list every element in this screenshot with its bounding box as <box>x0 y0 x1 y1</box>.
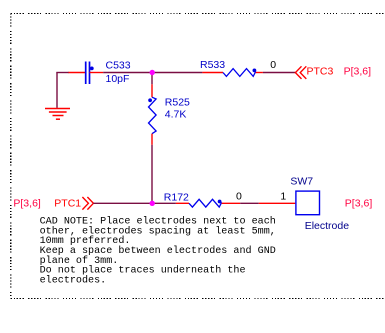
resistor R533 pin 1 <box>202 72 223 74</box>
label 4.7K <box>165 108 187 120</box>
label Electrode <box>305 220 350 232</box>
svg-text:Electrode: Electrode <box>305 220 350 232</box>
label PTC3 <box>307 66 334 78</box>
svg-text:electrodes.: electrodes. <box>40 274 107 286</box>
ground <box>45 109 70 120</box>
svg-text:PTC1: PTC1 <box>54 198 81 210</box>
pin number 1 of SW7 <box>280 191 286 203</box>
pin number 0 of R533 <box>270 59 276 71</box>
wire: C533 to junction <box>103 72 152 74</box>
svg-text:P[3,6]: P[3,6] <box>344 66 372 78</box>
svg-text:SW7: SW7 <box>290 175 313 187</box>
wire: junction down to R525 <box>151 73 153 85</box>
resistor R525 zigzag <box>149 97 157 134</box>
net label P[3,6] bottom left <box>13 198 41 210</box>
wire: gnd corner to C533 pin <box>56 72 69 74</box>
label 10pF <box>106 73 130 85</box>
node junction bottom <box>150 201 155 206</box>
net label P[3,6] top right <box>344 66 372 78</box>
wire: junction to R533 <box>152 72 202 74</box>
wire: R172 to SW7 <box>240 202 259 204</box>
wire: gnd vertical stem <box>56 73 58 108</box>
wire: junction to R172 <box>152 202 176 204</box>
off-page connector PTC3 chevrons <box>295 66 306 79</box>
capacitor C533 pin 1 <box>69 72 86 74</box>
svg-text:0: 0 <box>270 59 276 71</box>
resistor R525 pin-end dot <box>148 98 152 102</box>
resistor R533 pin-end dot <box>253 69 257 73</box>
pin number 0 of R172 <box>236 191 242 203</box>
wire: PTC1 to junction <box>93 202 152 204</box>
capacitor C533 plates <box>86 62 90 85</box>
label C533 <box>106 59 131 71</box>
resistor R172 zigzag <box>189 199 222 207</box>
net label P[3,6] bottom right <box>345 198 373 210</box>
resistor R525 pin 1 <box>151 84 153 97</box>
switch SW7 body <box>296 191 320 215</box>
wire: R525 down to bottom net <box>151 145 153 204</box>
label PTC1 <box>54 198 81 210</box>
resistor R533 pin 2 <box>256 72 263 74</box>
label R525 <box>165 97 190 109</box>
svg-text:4.7K: 4.7K <box>165 108 187 120</box>
label R533 <box>200 59 225 71</box>
resistor R525 pin 2 <box>151 134 153 145</box>
wire: R533 to off-page connector PTC3 <box>263 72 296 74</box>
off-page connector PTC1 chevrons <box>82 197 93 210</box>
label SW7 <box>290 175 313 187</box>
label R172 <box>164 192 189 204</box>
svg-text:R172: R172 <box>164 192 189 204</box>
capacitor C533 pin-end dot <box>90 67 94 71</box>
svg-text:10pF: 10pF <box>106 73 130 85</box>
CAD NOTE text block <box>40 216 276 287</box>
svg-text:P[3,6]: P[3,6] <box>345 198 373 210</box>
capacitor C533 pin 2 <box>90 72 104 74</box>
svg-text:C533: C533 <box>106 59 131 71</box>
svg-text:P[3,6]: P[3,6] <box>13 198 41 210</box>
node junction top <box>150 70 155 75</box>
svg-text:PTC3: PTC3 <box>307 66 334 78</box>
resistor R533 zigzag <box>223 69 256 77</box>
svg-text:0: 0 <box>236 191 242 203</box>
switch SW7 pin 1 <box>259 202 296 204</box>
resistor R172 pin-end dot <box>218 200 222 204</box>
svg-text:1: 1 <box>280 191 286 203</box>
resistor R172 pin 1 <box>176 202 189 204</box>
svg-text:R533: R533 <box>200 59 225 71</box>
svg-text:R525: R525 <box>165 97 190 109</box>
resistor R172 pin 2 <box>222 202 241 204</box>
